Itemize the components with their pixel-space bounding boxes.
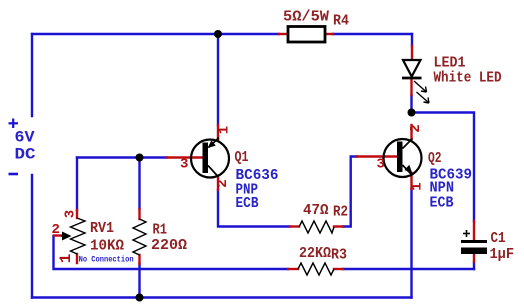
svg-text:R1: R1 xyxy=(153,222,168,239)
svg-text:22KΩ: 22KΩ xyxy=(299,245,331,262)
svg-text:1μF: 1μF xyxy=(490,246,515,263)
svg-text:3: 3 xyxy=(63,210,79,218)
svg-text:3: 3 xyxy=(180,157,188,173)
svg-text:R3: R3 xyxy=(331,247,347,264)
svg-text:1: 1 xyxy=(217,126,233,134)
svg-text:1: 1 xyxy=(57,254,75,264)
svg-text:C1: C1 xyxy=(491,230,506,247)
svg-text:Q2: Q2 xyxy=(428,150,442,167)
svg-text:RV1: RV1 xyxy=(90,220,114,237)
svg-text:ECB: ECB xyxy=(430,195,454,212)
svg-text:2: 2 xyxy=(215,179,231,187)
svg-text:47Ω: 47Ω xyxy=(303,202,329,219)
svg-text:White LED: White LED xyxy=(434,70,502,87)
svg-text:1: 1 xyxy=(410,182,426,190)
svg-text:220Ω: 220Ω xyxy=(151,237,187,254)
svg-text:Q1: Q1 xyxy=(235,149,249,166)
svg-text:3: 3 xyxy=(377,157,385,173)
svg-text:6V: 6V xyxy=(15,129,35,147)
svg-text:2: 2 xyxy=(52,222,60,238)
svg-text:ECB: ECB xyxy=(236,195,259,212)
svg-text:DC: DC xyxy=(15,146,36,164)
svg-text:R4: R4 xyxy=(333,12,349,29)
svg-text:2: 2 xyxy=(408,124,424,132)
svg-text:No Connection: No Connection xyxy=(79,256,134,265)
svg-text:10KΩ: 10KΩ xyxy=(90,238,124,255)
svg-text:5Ω/5W: 5Ω/5W xyxy=(283,9,329,26)
svg-text:R2: R2 xyxy=(333,204,348,221)
